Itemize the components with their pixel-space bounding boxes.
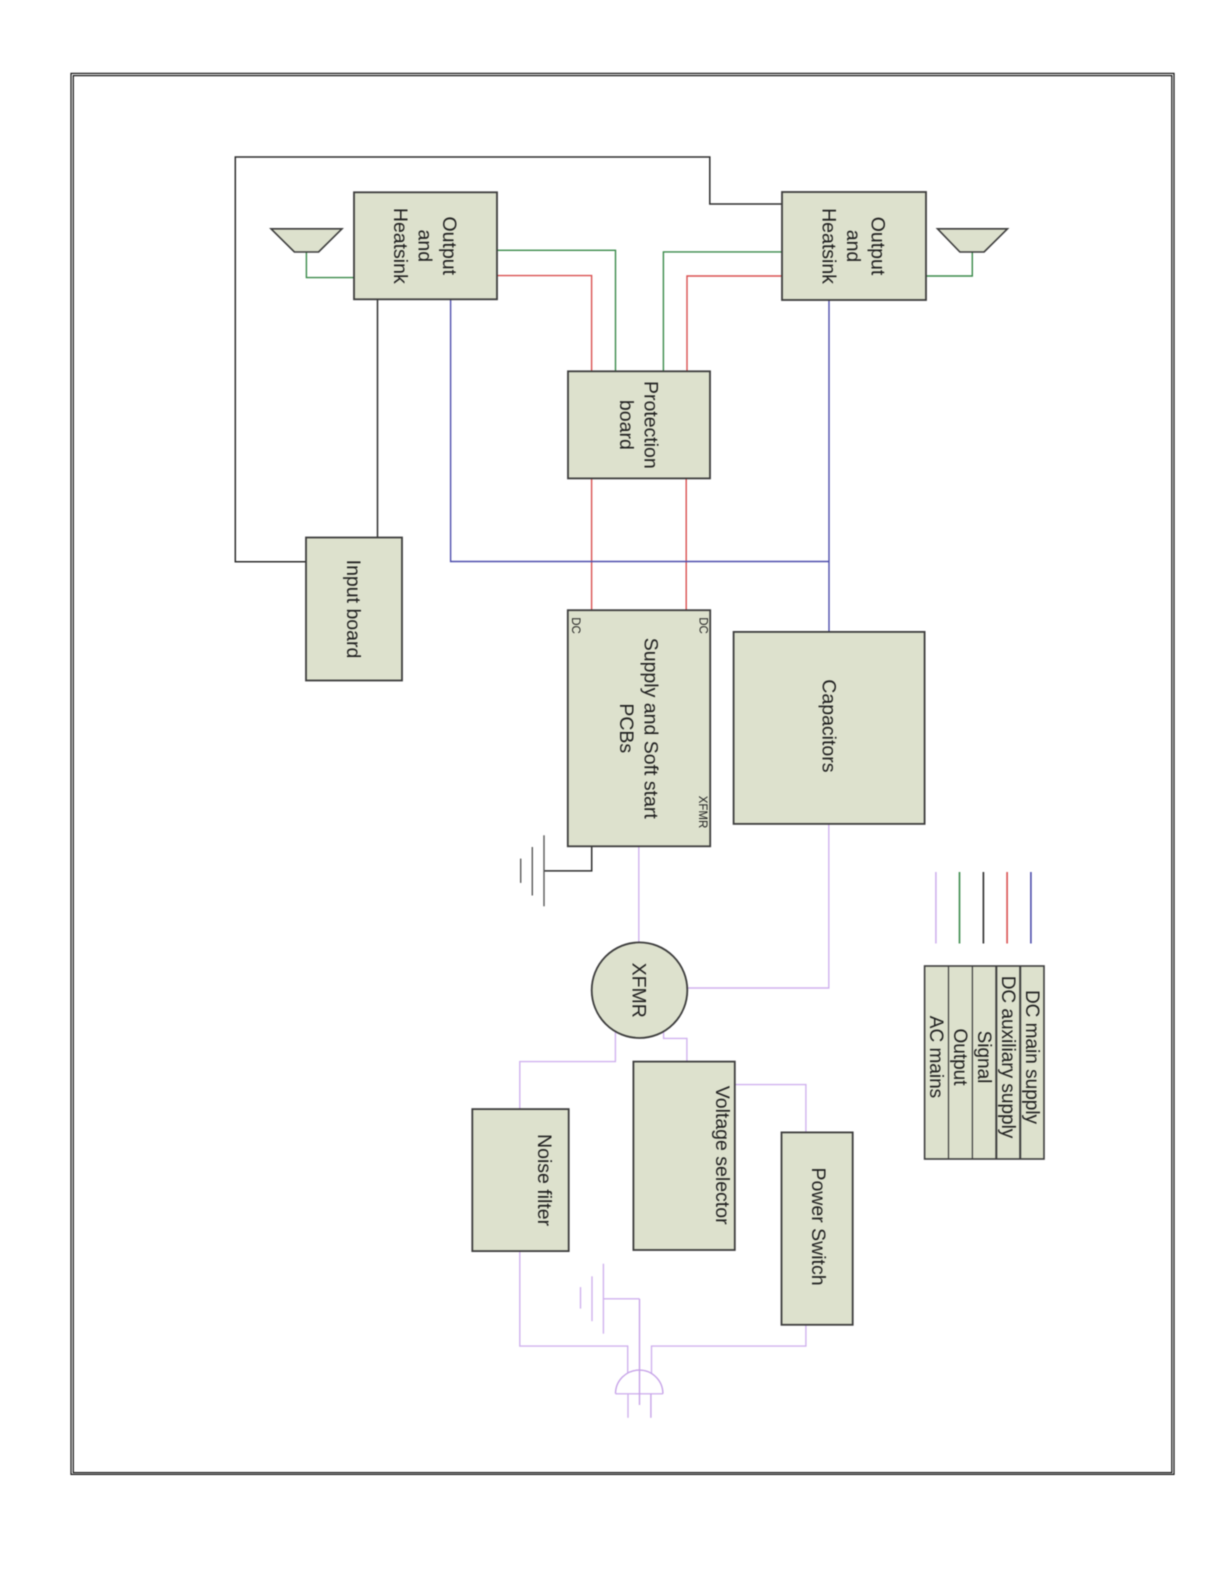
svg-text:AC mains: AC mains <box>925 1016 946 1098</box>
svg-text:Voltage selector: Voltage selector <box>711 1086 733 1225</box>
svg-text:Input board: Input board <box>342 560 364 659</box>
svg-text:Output: Output <box>949 1028 970 1086</box>
svg-text:XFMR: XFMR <box>696 796 708 829</box>
svg-text:DC main supply: DC main supply <box>1021 990 1042 1125</box>
svg-text:DC auxiliary supply: DC auxiliary supply <box>997 976 1018 1139</box>
svg-text:XFMR: XFMR <box>628 963 650 1018</box>
svg-text:Signal: Signal <box>973 1031 994 1084</box>
svg-text:Capacitors: Capacitors <box>818 679 840 772</box>
svg-text:Power Switch: Power Switch <box>807 1167 829 1285</box>
svg-text:DC: DC <box>569 617 581 634</box>
svg-text:Noise filter: Noise filter <box>533 1134 555 1227</box>
svg-text:DC: DC <box>697 617 709 634</box>
